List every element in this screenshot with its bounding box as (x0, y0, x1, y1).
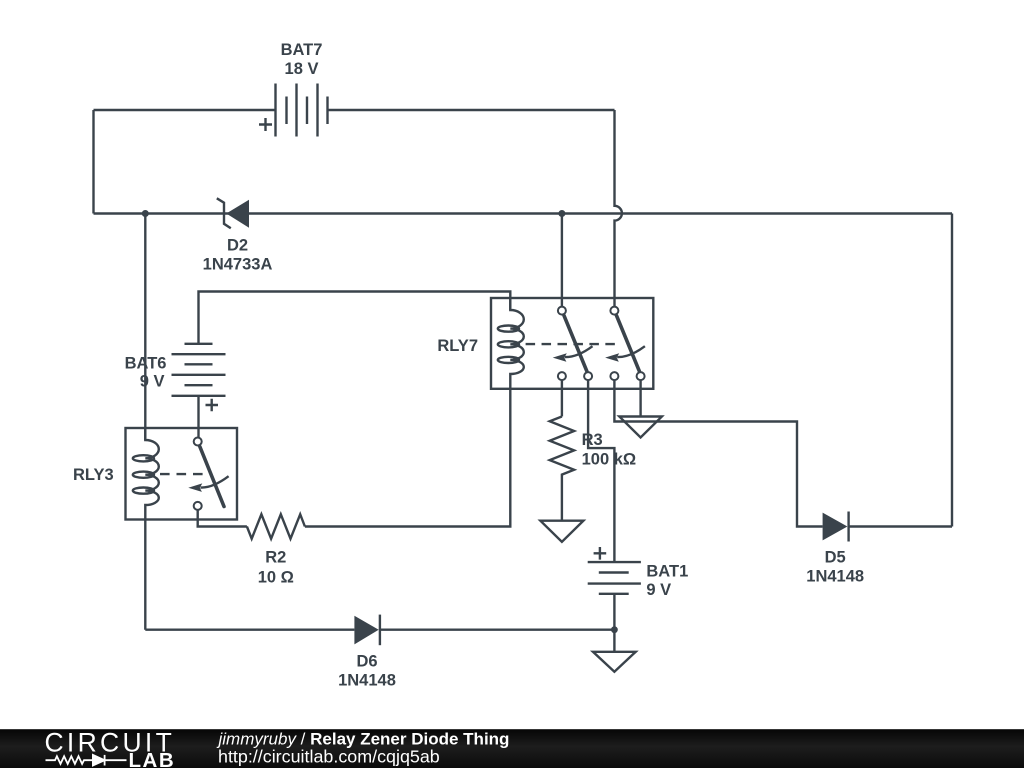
wire from node down to RLY3 coil (144, 214, 146, 441)
svg-text:100 kΩ: 100 kΩ (582, 451, 637, 469)
resistor R2 (247, 514, 305, 586)
battery BAT1 (588, 547, 689, 599)
svg-text:http://circuitlab.com/cqjq5ab: http://circuitlab.com/cqjq5ab (218, 747, 440, 767)
battery BAT6 (125, 344, 226, 412)
wire BAT6 top to RLY7 coil top (199, 292, 511, 344)
svg-text:RLY3: RLY3 (73, 466, 114, 484)
wire left vertical (92, 110, 94, 214)
svg-text:1N4148: 1N4148 (338, 672, 396, 690)
node junction dot at BAT1 bottom (611, 626, 618, 633)
ground under BAT1 (593, 652, 636, 672)
wire RLY7 throw 2 to BAT1 (588, 380, 614, 562)
wire top left horizontal to BAT7 (94, 109, 276, 111)
battery BAT7 (259, 41, 328, 136)
wire BAT6 bottom to RLY3 switch (197, 396, 199, 442)
svg-text:1N4733A: 1N4733A (203, 256, 273, 274)
wire RLY7 throw 3 to D5 (614, 380, 822, 526)
relay RLY7 (437, 298, 653, 389)
wire RLY7 throat 1 to R3 (561, 380, 563, 416)
svg-text:RLY7: RLY7 (437, 337, 478, 355)
wire right vertical down to D5 (951, 214, 953, 527)
footer bar (0, 729, 1024, 768)
svg-text:R3: R3 (582, 431, 603, 449)
svg-text:1N4148: 1N4148 (806, 567, 864, 585)
wire D6 to left vertical (145, 629, 354, 631)
wire hop vertical from BAT7 to RLY7 pole 2 (615, 110, 622, 306)
zener diode D2 (203, 198, 273, 273)
node junction dot at D2 branch (142, 210, 149, 217)
wire BAT7 right to top-right corner (328, 109, 615, 111)
svg-text:R2: R2 (265, 548, 286, 566)
ground under R3 (540, 478, 583, 542)
diode D5 (806, 512, 864, 586)
svg-text:D5: D5 (825, 549, 846, 567)
svg-text:LAB: LAB (129, 749, 176, 768)
svg-text:18 V: 18 V (285, 60, 319, 78)
wire node to RLY7 pole 1 (561, 214, 563, 307)
wire RLY3 switch bottom to R2 (198, 506, 247, 527)
diode D6 (338, 615, 396, 690)
node junction dot at RLY7 pole 1 branch (558, 210, 565, 217)
wire RLY3 coil bottom down to D6 row (144, 520, 146, 630)
svg-text:BAT1: BAT1 (646, 562, 688, 580)
svg-text:D2: D2 (227, 237, 248, 255)
svg-text:10 Ω: 10 Ω (258, 569, 294, 587)
resistor R3 (550, 417, 636, 479)
wire R2 to RLY7 coil bottom (305, 389, 510, 527)
wire junction to D6 (380, 629, 614, 631)
svg-text:BAT6: BAT6 (125, 355, 167, 373)
wire main horizontal node at y=213 (94, 212, 953, 214)
wire RLY7 throw 4 to ground (639, 380, 641, 416)
wire junction to ground (613, 630, 615, 652)
wire D5 to right vertical (849, 525, 952, 527)
ground under RLY7 throw 4 (619, 417, 662, 438)
svg-text:9 V: 9 V (646, 581, 671, 599)
relay RLY3 (73, 428, 237, 520)
wire BAT1 bottom to junction (613, 594, 615, 630)
svg-text:BAT7: BAT7 (281, 41, 323, 59)
svg-text:D6: D6 (356, 652, 377, 670)
svg-text:9 V: 9 V (140, 373, 165, 391)
footer logo resistor-diode drawing (46, 755, 127, 766)
